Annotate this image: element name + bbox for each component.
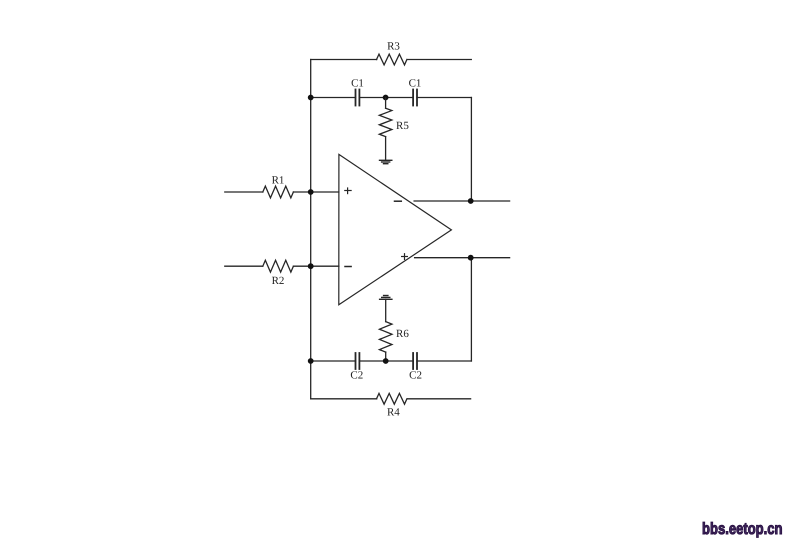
wire output bottom — [415, 257, 510, 259]
capacitor C1 right — [413, 90, 417, 106]
svg-text:C1: C1 — [351, 78, 364, 90]
wire output top — [414, 200, 510, 202]
wire R2 to op-amp — [293, 265, 339, 267]
wire right vertical bottom — [470, 258, 472, 361]
capacitor C2 right — [413, 353, 417, 369]
node junction left rail / C2 row — [308, 358, 314, 364]
resistor R1 — [263, 186, 294, 198]
node junction left-rail / C1 row — [308, 95, 314, 101]
node junction output top — [468, 198, 474, 204]
op-amp U1 minus input marker — [345, 266, 351, 268]
capacitor C2 left — [356, 353, 360, 369]
node junction R1 / left rail — [308, 189, 314, 195]
wire R5 top stub — [385, 98, 387, 109]
node junction C1 mid / R5 — [383, 95, 389, 101]
svg-text:C2: C2 — [409, 370, 422, 382]
wire C1 row segment 2 — [359, 97, 413, 99]
node junction R2 / left rail — [308, 263, 314, 269]
wire C2 row segment 2 — [359, 360, 413, 362]
resistor R4 — [377, 393, 407, 404]
wire R5 bottom stub — [385, 137, 387, 160]
node junction C2 mid / R6 — [383, 358, 389, 364]
wire right vertical top — [470, 98, 472, 202]
ground top (below R5) — [380, 160, 392, 163]
wire left vertical rail — [310, 60, 312, 399]
resistor R2 — [263, 260, 294, 272]
ground bottom (above R6) — [380, 296, 392, 300]
wire R6 bottom stub — [385, 352, 387, 361]
svg-text:C2: C2 — [350, 370, 363, 382]
op-amp U1 — [339, 154, 452, 304]
wire R1 input left — [225, 191, 263, 193]
wire R1 to op-amp — [293, 191, 339, 193]
svg-text:R3: R3 — [387, 41, 400, 53]
wire top feedback left segment — [311, 59, 377, 61]
resistor R5 — [379, 108, 392, 136]
capacitor C1 left — [356, 90, 360, 106]
wire bottom feedback right segment — [407, 398, 470, 400]
svg-text:R2: R2 — [272, 275, 285, 287]
op-amp U1 plus output marker — [402, 254, 408, 260]
svg-text:C1: C1 — [409, 78, 422, 90]
wire ground to R6 — [385, 299, 387, 321]
svg-text:R4: R4 — [387, 407, 400, 419]
svg-text:R5: R5 — [396, 120, 409, 132]
resistor R3 — [377, 54, 407, 65]
op-amp U1 minus output marker — [395, 200, 402, 202]
wire top feedback right segment — [407, 59, 471, 61]
op-amp U1 plus input marker — [345, 188, 351, 194]
wire bottom feedback left segment — [311, 398, 377, 400]
node junction output bottom — [468, 255, 474, 261]
wire C1 row segment 3 — [417, 97, 471, 99]
wire C2 row segment 3 — [417, 360, 471, 362]
wire C2 row segment 1 — [311, 360, 356, 362]
wire R2 input left — [225, 265, 263, 267]
wire C1 row segment 1 — [311, 97, 356, 99]
svg-text:R1: R1 — [272, 175, 285, 187]
svg-text:bbs.eetop.cn: bbs.eetop.cn — [702, 520, 783, 538]
resistor R6 — [379, 322, 392, 353]
svg-text:R6: R6 — [396, 328, 409, 340]
